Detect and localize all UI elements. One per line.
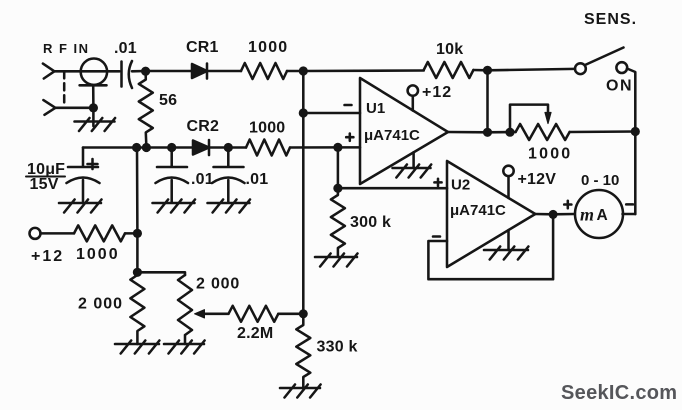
potentiometer 1000 body xyxy=(516,124,570,140)
U1 power stem xyxy=(412,96,415,111)
input arrow top xyxy=(43,64,55,79)
node I junction xyxy=(333,143,342,152)
pot feedback loop xyxy=(510,105,548,133)
wire node G down to node O xyxy=(136,148,139,273)
capacitor 10uF plus sign xyxy=(88,159,98,169)
svg-text:ON: ON xyxy=(606,78,633,95)
svg-text:+12V: +12V xyxy=(518,171,557,188)
svg-text:300 k: 300 k xyxy=(350,214,391,231)
ground 300k xyxy=(315,254,358,267)
svg-text:+12: +12 xyxy=(31,248,64,265)
resistor 300k xyxy=(331,188,345,256)
wire CR1 to R 1000 xyxy=(207,70,241,73)
wire CR2 to C3 xyxy=(209,146,246,149)
node G junction xyxy=(132,143,141,152)
svg-text:330 k: 330 k xyxy=(317,339,358,356)
U2 minus sign xyxy=(433,235,440,238)
resistor 56 xyxy=(139,71,153,148)
resistor 1000 bias xyxy=(74,225,125,241)
potentiometer 2000 body xyxy=(178,275,192,344)
ground 2000 pot xyxy=(164,341,205,354)
node D junction xyxy=(483,66,492,75)
wire top arrow to connector xyxy=(54,70,81,73)
switch lever xyxy=(585,48,624,66)
node B junction xyxy=(141,67,150,76)
ground U2 xyxy=(484,247,528,260)
wire node I down to node J xyxy=(337,147,340,188)
wire mid row left xyxy=(83,146,193,149)
connector base bar xyxy=(80,84,107,87)
U2 feedback loop xyxy=(428,215,553,280)
ground C2 xyxy=(153,200,196,213)
switch throw circle xyxy=(616,62,627,73)
ground 10uF xyxy=(59,200,102,213)
U1 plus sign xyxy=(346,134,353,141)
+12 terminal xyxy=(30,228,41,239)
svg-text:1000: 1000 xyxy=(249,120,285,137)
svg-text:A: A xyxy=(597,207,608,224)
wire bottom arrow to junction xyxy=(55,107,93,110)
connector J1 circle xyxy=(81,58,107,84)
input arrow bottom xyxy=(43,100,55,115)
U2 power terminal xyxy=(503,166,513,176)
resistor 1000 top xyxy=(241,63,287,79)
node shield junction xyxy=(89,103,98,112)
svg-text:CR1: CR1 xyxy=(186,39,219,56)
op-amp U2 xyxy=(447,161,535,267)
ground 2000 left xyxy=(115,341,159,354)
resistor 2.2M xyxy=(229,306,279,322)
pot 2000 wiper arrow xyxy=(195,310,229,318)
ground C3 xyxy=(208,200,251,213)
svg-text:μA741C: μA741C xyxy=(450,202,506,219)
node F junction xyxy=(299,108,308,117)
resistor 2000 left xyxy=(130,272,144,344)
svg-text:+12: +12 xyxy=(422,84,452,101)
U1 minus sign xyxy=(345,104,352,107)
capacitor C2 .01 xyxy=(156,148,189,203)
dashed shield wire xyxy=(63,71,66,106)
U2 plus sign xyxy=(434,179,441,186)
svg-text:U2: U2 xyxy=(451,177,470,194)
svg-text:μA741C: μA741C xyxy=(364,127,420,144)
meter minus sign xyxy=(626,203,633,206)
resistor 1000 mid xyxy=(246,140,290,156)
node L junction xyxy=(505,128,514,137)
node O junction xyxy=(133,268,142,277)
U2 ground stem xyxy=(507,230,510,250)
svg-text:10k: 10k xyxy=(436,41,463,58)
capacitor 10uF xyxy=(67,148,100,203)
svg-text:R F IN: R F IN xyxy=(43,41,90,56)
svg-text:SENS.: SENS. xyxy=(584,11,637,28)
wire 10k to switch xyxy=(473,69,575,70)
node C junction xyxy=(299,66,308,75)
U1 ground stem xyxy=(412,152,415,168)
svg-text:U1: U1 xyxy=(366,100,385,117)
ground U1 xyxy=(393,165,432,178)
meter plus sign xyxy=(564,201,571,208)
node C2 junction xyxy=(167,143,176,152)
U2 power stem xyxy=(507,176,510,198)
wire switch to right rail xyxy=(627,69,635,215)
capacitor C3 .01 xyxy=(212,148,245,203)
svg-text:1000: 1000 xyxy=(248,39,288,56)
wire +12 to R1000 xyxy=(41,232,75,235)
ground RF input xyxy=(75,118,116,131)
meter M1 mA xyxy=(575,190,623,238)
pot wiper arrow xyxy=(545,113,551,124)
wire U1 output xyxy=(448,131,516,134)
wire 1000 to U1 plus input xyxy=(290,146,360,149)
node K junction xyxy=(483,128,492,137)
svg-text:56: 56 xyxy=(159,92,177,109)
svg-text:SeekIC.com: SeekIC.com xyxy=(561,382,677,404)
svg-text:2 000: 2 000 xyxy=(78,296,123,313)
svg-text:2 000: 2 000 xyxy=(196,276,240,293)
wire node D to node K xyxy=(486,70,489,132)
svg-text:2.2M: 2.2M xyxy=(237,325,273,342)
wire node O to pot 2000 xyxy=(137,272,185,275)
wire meter to right rail xyxy=(623,213,636,216)
diode CR2 xyxy=(193,140,209,155)
svg-text:1000: 1000 xyxy=(528,146,572,163)
svg-text:15V: 15V xyxy=(30,176,59,193)
svg-text:CR2: CR2 xyxy=(187,118,220,135)
node N junction xyxy=(133,229,142,238)
node J junction xyxy=(333,184,342,193)
svg-text:.01: .01 xyxy=(191,171,214,188)
svg-text:m: m xyxy=(580,205,594,225)
svg-text:.01: .01 xyxy=(246,171,269,188)
svg-text:0 - 10: 0 - 10 xyxy=(581,172,619,189)
wire node J to U2 plus input xyxy=(338,187,447,190)
node P junction xyxy=(299,309,308,318)
capacitor .01 input xyxy=(122,61,133,88)
wire node C to node F to node 2.2M xyxy=(302,71,305,314)
resistor 10k xyxy=(424,62,474,78)
node H junction xyxy=(142,143,151,152)
wire node F to U1 inverting input xyxy=(303,112,360,115)
svg-text:1000: 1000 xyxy=(76,246,120,263)
capacitor 10uF fraction bar xyxy=(26,176,65,178)
node C3 junction xyxy=(224,143,233,152)
capacitor 10uF 15V label xyxy=(27,161,65,193)
ground 330k xyxy=(280,385,321,398)
node E junction xyxy=(631,127,640,136)
U1 power terminal xyxy=(408,85,418,95)
switch pole circle xyxy=(575,63,586,74)
wire R1000 to node N xyxy=(125,232,137,235)
wire through connector xyxy=(81,70,120,73)
wire U2 output xyxy=(535,213,574,216)
diode CR1 xyxy=(192,64,207,79)
wire cap to node B xyxy=(132,70,192,73)
op-amp U1 xyxy=(360,78,448,184)
wire pot to right rail xyxy=(570,130,636,133)
node M junction xyxy=(549,210,558,219)
svg-text:.01: .01 xyxy=(114,40,137,57)
connector stem wire xyxy=(92,85,95,126)
wire 2.2M to node P xyxy=(278,313,303,316)
resistor 330k xyxy=(296,314,310,388)
wire R1000 to node C xyxy=(287,69,424,72)
